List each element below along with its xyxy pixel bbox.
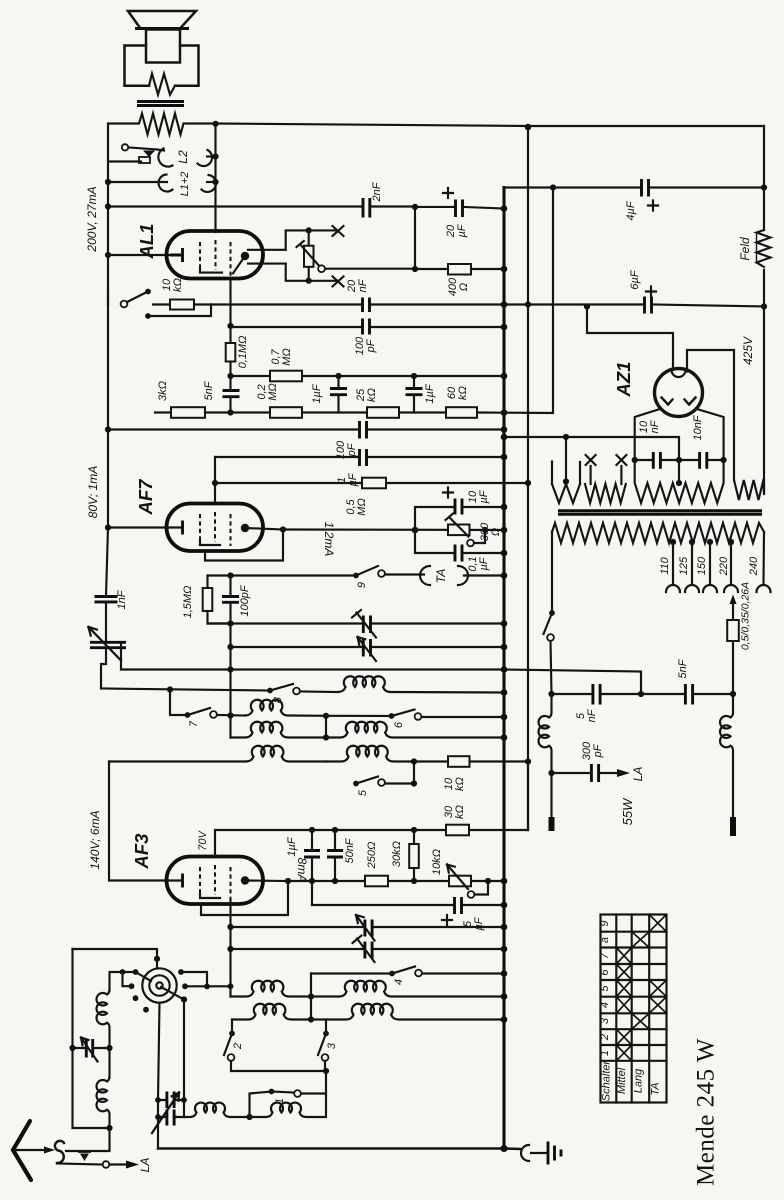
rotary contact a wire [110, 972, 136, 990]
svg-text:10µF: 10µF [467, 489, 490, 503]
rotary contact b with stub [133, 969, 139, 975]
rotary contact c wire [123, 972, 132, 986]
svg-text:2nF: 2nF [371, 181, 383, 202]
wire 6uF row y305 [504, 305, 764, 307]
wire y689 from trimmer corner [101, 689, 270, 691]
svg-text:200V, 27mA: 200V, 27mA [85, 186, 99, 252]
node dot bus528 top [525, 124, 532, 131]
switch 1 [250, 1089, 301, 1117]
node dot L1+2 left [105, 179, 111, 185]
svg-text:4: 4 [393, 979, 405, 985]
node dot 733/694 [730, 691, 736, 697]
svg-text:1µF: 1µF [424, 383, 436, 403]
AZ1 right anode lead [697, 409, 724, 460]
svg-text:0,1MΩ: 0,1MΩ [237, 336, 249, 369]
AZ1 cathode lead to HT [587, 307, 673, 371]
svg-text:125: 125 [678, 556, 690, 575]
antenna coil lower [97, 1077, 110, 1128]
coil row y1019 right [311, 1004, 504, 1020]
node dot primary right [212, 121, 218, 127]
node dot 552/694 [548, 691, 554, 697]
node 2nF right [412, 204, 418, 210]
wire below 1,5M [208, 611, 231, 624]
node dot 483 bus528 [525, 480, 531, 486]
node dot 647 [227, 644, 233, 650]
plus 5uF [442, 915, 452, 925]
node dot 566/437 [563, 434, 569, 440]
svg-text:Schalter: Schalter [601, 1059, 613, 1101]
X mark top [333, 226, 344, 236]
node dot 553 bus [501, 550, 508, 557]
wire AF7 anode row y530 [283, 528, 504, 531]
AF3 grid vertical [214, 830, 216, 857]
vertical x170 [170, 690, 188, 716]
switch 2 vertical [224, 1020, 326, 1072]
gang tuning cap y927 [356, 915, 375, 941]
svg-text:TA: TA [434, 569, 448, 583]
node dots 10nF junctions [632, 457, 638, 463]
capacitor 100pF (y429) [360, 421, 367, 439]
resistor 400 Ohm [415, 264, 504, 275]
capacitor 2nF [362, 198, 415, 218]
wire row y429 (100pF row) [108, 428, 504, 430]
node dot 717 bus [501, 714, 508, 721]
wire 200V row to 2nF [108, 205, 362, 207]
svg-text:TA: TA [650, 1082, 662, 1095]
tube AF3 envelope [167, 857, 264, 905]
AF7 cathode lead [108, 526, 183, 528]
svg-text:3kΩ: 3kΩ [157, 381, 169, 401]
resistor 10k box [153, 300, 211, 310]
svg-text:9: 9 [599, 920, 611, 926]
coil y762 right [326, 746, 414, 762]
winding W2 stubs [591, 466, 622, 484]
node dot x553 y187 [550, 184, 556, 190]
wire row y457 (1uF row) [215, 456, 504, 458]
rotary wiper end dot [181, 996, 187, 1002]
switch 9 [353, 566, 424, 578]
svg-text:5: 5 [357, 789, 369, 796]
node dots lower padder [155, 1114, 161, 1120]
winding W1 [552, 484, 580, 503]
winding W1 centre lead joins heater [565, 481, 567, 484]
wire row y412 mid [205, 188, 553, 414]
vertical x326 to sw1 row [301, 1071, 326, 1094]
mains primary winding [552, 523, 764, 543]
node dots y949 [227, 946, 233, 952]
svg-text:LA: LA [631, 767, 645, 782]
vertical x311 [310, 974, 312, 997]
svg-text:80V; 1mA: 80V; 1mA [86, 466, 100, 518]
ground clamp arc [521, 1145, 529, 1161]
corner 1,5M drop [206, 576, 208, 589]
gang padder cap y949 [353, 936, 375, 963]
potentiometer vertical box [297, 230, 322, 281]
node dot x414 y783 [411, 780, 417, 786]
vertical from rotary bottom x157 [158, 1003, 160, 1149]
antenna loop bottom wire [73, 1127, 110, 1129]
wire 100pF row (y327) [231, 326, 505, 328]
switch 4 [389, 967, 504, 977]
svg-text:1: 1 [599, 1050, 611, 1056]
pot 300 wiper circle [467, 540, 474, 547]
switch 5 branch [384, 762, 414, 784]
AF7 bottom loop [205, 530, 283, 561]
antenna chevron [13, 1121, 31, 1180]
svg-text:0,1µF: 0,1µF [467, 556, 490, 571]
svg-text:0,5/0,35/0,26A: 0,5/0,35/0,26A [740, 582, 752, 650]
capacitor 1nF on left rail [95, 528, 118, 641]
node dot 457 bus [501, 454, 508, 461]
rail x230 below AF3 [229, 899, 231, 997]
AZ1 anode strokes [662, 398, 696, 405]
node dot 100pF top [227, 572, 233, 578]
node dot 6uF row bus528 [525, 301, 531, 307]
svg-text:1nF: 1nF [116, 589, 128, 609]
node dot 587/306 [584, 303, 590, 309]
antenna coil upper [97, 990, 110, 1048]
svg-text:8mA: 8mA [295, 858, 309, 883]
wire y949 left to rotary [73, 949, 158, 959]
switch 5 [353, 777, 385, 787]
node dot 737 bus [501, 734, 508, 741]
svg-text:a: a [599, 937, 611, 943]
left rail segment C [109, 762, 167, 881]
resistor 60k box [446, 407, 477, 418]
rotary contact d dot [133, 995, 139, 1001]
switch at AL1 cathode row [108, 289, 151, 319]
plus 4uF [648, 201, 658, 211]
capacitor 5uF electrolytic [455, 897, 462, 914]
svg-text:220: 220 [718, 556, 730, 576]
output transformer primary winding [108, 114, 216, 135]
switch 3 vertical [318, 1020, 329, 1072]
coil y716 left [245, 700, 326, 716]
capacitor 1uF (y457) [360, 449, 367, 466]
vertical x311 through rows [310, 997, 312, 1020]
antenna coil link [108, 1048, 110, 1077]
svg-text:1µF: 1µF [311, 383, 323, 403]
svg-text:Mittel: Mittel [616, 1067, 628, 1094]
node dot 552/773 [548, 770, 554, 776]
AF3 grid1 dashed [199, 867, 201, 894]
coupling hook [55, 1141, 64, 1163]
node dot left rail 200V [105, 203, 111, 209]
table header labels [601, 1059, 662, 1101]
coil y762 left [246, 746, 326, 762]
capacitor 5nF left [593, 684, 600, 705]
svg-text:4µF: 4µF [625, 200, 637, 220]
left rail mid [107, 304, 109, 527]
node dot AF3 anode junction [285, 878, 291, 884]
node dot 624 bus [501, 620, 508, 627]
node dot x170 y690 [167, 686, 173, 692]
switch 4 row y973 [311, 972, 392, 974]
svg-text:6: 6 [393, 721, 405, 728]
rotary wiper arm [161, 987, 184, 1000]
pot 10k wiper [468, 891, 475, 898]
loudspeaker cone [128, 11, 196, 29]
wire y672 to transformer area [504, 670, 641, 695]
coil L2 [157, 149, 216, 167]
vertical x326 between rows [325, 716, 327, 738]
coil IF y692 [338, 676, 504, 692]
node dot 530 bus [501, 527, 508, 534]
X mark W2 left [586, 455, 596, 465]
plug arrow into 220 tap [730, 595, 737, 605]
resistor 0,5M box [362, 478, 386, 489]
plug symbol under hook [79, 1152, 90, 1161]
potentiometer 300 Ohm box [446, 514, 470, 537]
AL1 grid1 hook [200, 268, 222, 273]
svg-text:6µF: 6µF [629, 269, 641, 289]
transformer core bars [137, 102, 184, 106]
wire gang row y927 [231, 926, 505, 928]
AF3 grid3 dashed [230, 867, 232, 899]
svg-text:25kΩ: 25kΩ [355, 388, 378, 402]
resistor 10k box y762 [414, 756, 528, 767]
svg-text:100pF: 100pF [239, 584, 251, 616]
capacitor 10nF right [679, 452, 724, 469]
variable capacitor feedback (big trimmer) [89, 627, 127, 689]
plug pin left [549, 817, 555, 831]
capacitor 20nF [363, 298, 370, 313]
svg-text:AF7: AF7 [135, 478, 156, 516]
svg-text:10kΩ: 10kΩ [443, 777, 466, 791]
wire y647 trimmer gang 2 [231, 646, 505, 648]
svg-text:250Ω: 250Ω [366, 842, 378, 870]
AF7 grid1 dashed [199, 514, 201, 541]
plus 10uF [443, 488, 453, 498]
svg-text:AZ1: AZ1 [613, 362, 634, 398]
potentiometer 10k box [447, 865, 471, 890]
svg-text:0,2MΩ: 0,2MΩ [256, 383, 279, 401]
tap leads [673, 532, 764, 583]
capacitor 20uF electrolytic [415, 200, 504, 218]
resistor 30k vertical x414 [409, 830, 419, 881]
AF7 anode lead right [245, 528, 283, 530]
capacitor 5nF right [685, 684, 692, 705]
AZ1 top notch [672, 370, 686, 377]
wire 20nF row [211, 303, 504, 305]
node dot 692 bus [501, 689, 508, 696]
svg-text:1,2mA: 1,2mA [322, 522, 336, 557]
wire to switch 6 [326, 715, 392, 717]
node dot 996 bus [501, 993, 508, 1000]
node dot x326 y1071 [323, 1068, 329, 1074]
capacitor 100pF vertical [222, 576, 239, 624]
switch 8 [267, 684, 338, 694]
wiper vertical x184 [183, 1000, 185, 1118]
svg-text:9: 9 [356, 582, 368, 588]
svg-text:3: 3 [326, 1042, 338, 1049]
capacitor 4uF [642, 179, 649, 197]
wire y669 from trimmer top [121, 643, 504, 670]
gang tuning cap y647 [358, 637, 377, 661]
svg-text:2: 2 [232, 1043, 244, 1050]
node dot pot bottom [306, 278, 312, 284]
vertical link 2nF row to 400ohm row [414, 207, 416, 269]
table row numbers [599, 920, 611, 1056]
line 425V right vertical [763, 126, 765, 494]
resistor 0,7M box [270, 371, 302, 382]
AZ1 right filament lead [687, 350, 734, 480]
node 400 row left [412, 266, 418, 272]
tap socket arcs [666, 585, 771, 592]
tap dots on primary [670, 539, 676, 545]
coil y737 right [326, 722, 504, 738]
svg-text:2: 2 [599, 1034, 611, 1041]
node dots on bus x504 upper [501, 205, 508, 212]
resistor Feld zigzag [757, 230, 771, 267]
ground symbol [531, 1142, 561, 1165]
node dot 414/376 [411, 373, 417, 379]
AF7 grid vertical [214, 457, 216, 504]
AF3 anode lead [245, 879, 288, 882]
winding W3 centre tap [678, 460, 680, 483]
node dot 641/694 [638, 691, 644, 697]
switch 7 [185, 708, 245, 718]
wire y905 [312, 904, 504, 906]
table X marks [616, 915, 666, 1061]
svg-text:10kΩ: 10kΩ [161, 278, 184, 292]
wire below 0,1M [229, 362, 231, 377]
LA terminal wire [57, 1161, 139, 1169]
node dot grid 483 [212, 480, 218, 486]
tube AL1 envelope [167, 231, 264, 279]
node dot 327 left [227, 323, 233, 329]
node top left rail [107, 124, 109, 148]
node dot L1+2 right [212, 179, 218, 185]
AL1 cathode bar [170, 248, 183, 262]
wire y762 from left corner [109, 760, 246, 762]
wire row y483 (0,5M row) [215, 482, 528, 484]
AF7 anode dot [241, 524, 249, 532]
AL1 anode leads right [248, 250, 286, 264]
loudspeaker magnet frame [125, 46, 199, 86]
svg-text:L1+2: L1+2 [179, 172, 191, 197]
node dot 412 [227, 409, 233, 415]
TA jack arcs [420, 566, 504, 585]
svg-text:5nF: 5nF [203, 380, 215, 400]
AL1 anode diagonal [233, 256, 245, 273]
rectifier AZ1 envelope [655, 369, 703, 417]
node dot chassis bus [500, 1145, 507, 1152]
svg-text:L2: L2 [176, 150, 190, 164]
node dots on y830 [309, 827, 315, 833]
capacitor 10nF left [635, 452, 679, 469]
jack plug triangle and socket [108, 147, 157, 182]
capacitor 50nF vertical x335 [327, 830, 343, 881]
node dot rotary top contact [154, 956, 160, 962]
node dot 566/482 [563, 478, 569, 484]
wiper wire to 400ohm row [325, 268, 415, 270]
antenna outer loop left vertical [71, 949, 73, 1128]
rail x231 sw9 to coils [229, 624, 231, 738]
wire HT row y187 [504, 186, 764, 188]
wire anode row y881 [288, 880, 504, 882]
svg-text:30kΩ: 30kΩ [443, 805, 466, 819]
branch down to 0,1uF [415, 530, 504, 553]
svg-text:5: 5 [599, 985, 611, 992]
resistor voice coil zigzag [149, 74, 175, 95]
node dot x326 y716 [323, 713, 329, 719]
node dot 507 bus [501, 504, 508, 511]
AL1 grid2 dashed [215, 240, 217, 270]
coil y737 left [231, 722, 327, 738]
wire top long to right [216, 124, 765, 127]
svg-text:0,5MΩ: 0,5MΩ [345, 498, 368, 516]
AF3 anode dot [241, 876, 249, 884]
node dot x414 y762 [411, 758, 417, 764]
lower padder cap [158, 1110, 176, 1126]
svg-text:4: 4 [599, 1002, 611, 1008]
node dot 905 bus [501, 902, 508, 909]
node dot 881 bus [501, 878, 508, 885]
node 6uF right [761, 303, 767, 309]
branch up to 10uF [415, 507, 504, 530]
wire AF3 grid row y830 [215, 829, 528, 831]
coil row y996 right [311, 981, 504, 997]
underline Feld [756, 234, 758, 263]
svg-text:30kΩ: 30kΩ [391, 841, 403, 867]
vertical x312 down to y905 [311, 881, 313, 905]
node dot 485/530 [482, 527, 488, 533]
node dot 429 bus [501, 426, 508, 433]
line 425V joins W4 [762, 480, 765, 494]
node dot rail231 y716 [227, 712, 233, 718]
wiper link [474, 530, 485, 543]
wire row y412 left [155, 411, 171, 413]
node dot 575 bus [501, 572, 508, 579]
node dot 1019 bus [501, 1016, 508, 1023]
coil line down to hook wire [66, 1128, 110, 1151]
capacitor 6uF [645, 297, 652, 314]
coil L1+2 [108, 175, 216, 192]
node dot 338/376 [335, 373, 341, 379]
node dot 762 bus528 [525, 758, 531, 764]
vertical AL1 cathode chain x230 [229, 327, 231, 343]
node dots y881 [309, 878, 315, 884]
antenna trimmer cap [73, 1038, 110, 1062]
winding W3 [635, 460, 724, 503]
svg-text:10nF: 10nF [638, 419, 661, 433]
winding W4 [734, 480, 763, 500]
node dot rail y429 [105, 426, 111, 432]
svg-text:150: 150 [696, 556, 708, 575]
X mark bottom [333, 276, 344, 286]
AF7 grid1 hook [200, 541, 220, 545]
tube AF7 envelope [167, 504, 264, 552]
AF3 grid1 hook [200, 894, 220, 898]
mains choke right [720, 694, 733, 817]
coil row y1019 left [232, 1004, 311, 1020]
transformer core bars [558, 511, 762, 515]
AF3 cathode bar [181, 874, 184, 888]
svg-text:70V: 70V [197, 830, 209, 851]
AL1 grid1 dashed [199, 242, 201, 268]
antenna lead with arrowhead [13, 1147, 55, 1154]
switch 6 [389, 710, 504, 720]
loudspeaker coil box [146, 30, 180, 63]
wire sw9 row y575 [208, 574, 357, 576]
wire row y376 [231, 375, 505, 377]
svg-text:5nF: 5nF [677, 658, 689, 678]
left rail upper [107, 182, 109, 304]
AF7 cathode bar [181, 521, 184, 535]
bottom chassis wire [158, 1147, 520, 1150]
AL1 suppressor exit [229, 278, 231, 327]
